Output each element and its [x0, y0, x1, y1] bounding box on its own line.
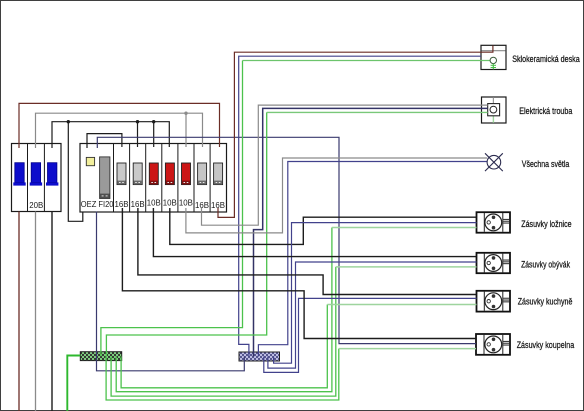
- wire: black branch bus to RCD input: [68, 122, 83, 222]
- distribution panel box: [80, 144, 227, 213]
- svg-text:Zásuvky kuchyně: Zásuvky kuchyně: [518, 296, 573, 306]
- svg-text:Zásuvky koupelna: Zásuvky koupelna: [517, 340, 575, 350]
- socket 2 internals: [484, 254, 509, 273]
- svg-text:OEZ FI20: OEZ FI20: [81, 199, 114, 209]
- junction black bus / RCD feed: [67, 120, 70, 123]
- svg-text:16B: 16B: [131, 199, 145, 209]
- wire: navy socket1 N to N bar: [274, 223, 477, 364]
- wire: gray m6 to oven L: [202, 105, 488, 225]
- svg-text:10B: 10B: [179, 198, 193, 208]
- wire: black RCD output to module m1: [87, 134, 122, 148]
- svg-text:Elektrická trouba: Elektrická trouba: [519, 106, 572, 116]
- wire: green main earth to PE bar: [67, 356, 80, 411]
- svg-text:10B: 10B: [163, 198, 177, 208]
- wire: navy socket2 N to N bar: [268, 262, 477, 368]
- 20B pole 2 handle: [30, 163, 42, 186]
- wire: navy oven N to N bar: [254, 108, 488, 356]
- indicator lamp (yellow): [86, 157, 94, 165]
- junction gray bus / m5: [184, 112, 187, 115]
- svg-text:Všechna světla: Všechna světla: [522, 159, 570, 169]
- wire: phase L1 brown supply below breaker: [18, 212, 20, 411]
- breaker module m3 10B handle (red): [149, 163, 158, 185]
- wire: black m3 to socket2 L: [153, 208, 476, 257]
- breaker module m1 16B handle: [117, 163, 126, 185]
- wire: black branch bus to module m3 top: [153, 122, 155, 147]
- junction black bus / m2: [136, 120, 139, 123]
- PE terminal bar: [80, 352, 121, 361]
- wire: navy lamp N to N bar: [258, 162, 487, 357]
- breaker module m2 16B handle: [133, 163, 142, 185]
- svg-text:20B: 20B: [29, 200, 43, 210]
- wire: navy hob N from N bar: [239, 56, 481, 356]
- wire: green socket3 PE from PE bar: [121, 305, 327, 388]
- socket 1 internals: [484, 213, 509, 232]
- wire: navy socket3 N to N bar: [264, 298, 477, 372]
- svg-text:Zásuvky ložnice: Zásuvky ložnice: [521, 219, 571, 229]
- breaker module m4 10B handle (red): [165, 163, 174, 185]
- oven symbol circle: [490, 106, 497, 113]
- wire: green socket1 PE from PE bar: [116, 228, 332, 392]
- wire: black m1 to socket4 L: [122, 208, 476, 339]
- load: oven box (Elektricka trouba): [482, 97, 507, 123]
- wire: black branch bus to module m2 top: [137, 122, 139, 147]
- circuit breaker 20B (3-pole): [12, 144, 62, 212]
- socket box 2 (Zasuvky obyvak): [477, 253, 511, 273]
- wire: black m2 to socket3 L: [138, 208, 477, 295]
- svg-text:10B: 10B: [147, 198, 161, 208]
- socket 3 internals: [484, 292, 509, 311]
- breaker module m6 16B handle: [198, 163, 207, 185]
- svg-text:16B: 16B: [195, 200, 209, 210]
- wire: black m4 to socket1 L: [170, 208, 477, 244]
- socket 4 internals: [484, 335, 509, 354]
- wire: green socket4 PE from PE bar: [106, 349, 339, 400]
- wire: green hob PE from PE bar: [101, 61, 243, 357]
- svg-text:Sklokeramická deska: Sklokeramická deska: [512, 54, 580, 64]
- wire: gray bus breaker pole2 to module m6: [36, 113, 203, 148]
- 20B pole 1 handle: [13, 163, 25, 186]
- wire: navy RCD top N to socket 4 N: [97, 137, 476, 343]
- load: hob box (Sklokeramicka deska): [481, 45, 506, 69]
- wire: phase L3 black supply below breaker: [51, 212, 53, 411]
- socket box 3 (Zasuvky kuchyne): [477, 291, 511, 312]
- wire: gray branch to module m5 top: [185, 113, 187, 147]
- junction black bus / m3: [152, 120, 155, 123]
- breaker module m5 10B handle (red): [182, 163, 191, 185]
- socket box 4 (Zasuvky koupelna): [476, 334, 510, 355]
- wire: brown m7 to hob L: [218, 46, 493, 218]
- 20B pole 3 handle: [46, 163, 58, 186]
- socket box 1 (Zasuvky loznice): [477, 212, 511, 233]
- svg-text:Zásuvky obývák: Zásuvky obývák: [521, 259, 570, 269]
- wire: green socket2 PE from PE bar: [111, 267, 336, 396]
- wire: gray m5 to lamp L: [186, 158, 487, 233]
- wire: black bus breaker pole3 to module m4: [52, 122, 169, 148]
- wire: navy RCD bottom N to N bar: [97, 212, 245, 371]
- wire: phase L2 gray supply below breaker: [35, 212, 37, 411]
- svg-text:16B: 16B: [115, 199, 129, 209]
- N terminal bar: [239, 352, 280, 361]
- hob symbol circle: [490, 57, 496, 69]
- lamp symbol (Vsechna svetla): [485, 153, 503, 171]
- RCD OEZ FI20 handle: [100, 157, 110, 199]
- breaker module m7 16B handle: [214, 163, 223, 185]
- wire: green oven PE from PE bar: [106, 112, 266, 356]
- wire: brown bus breaker pole1 to module m7: [19, 103, 220, 148]
